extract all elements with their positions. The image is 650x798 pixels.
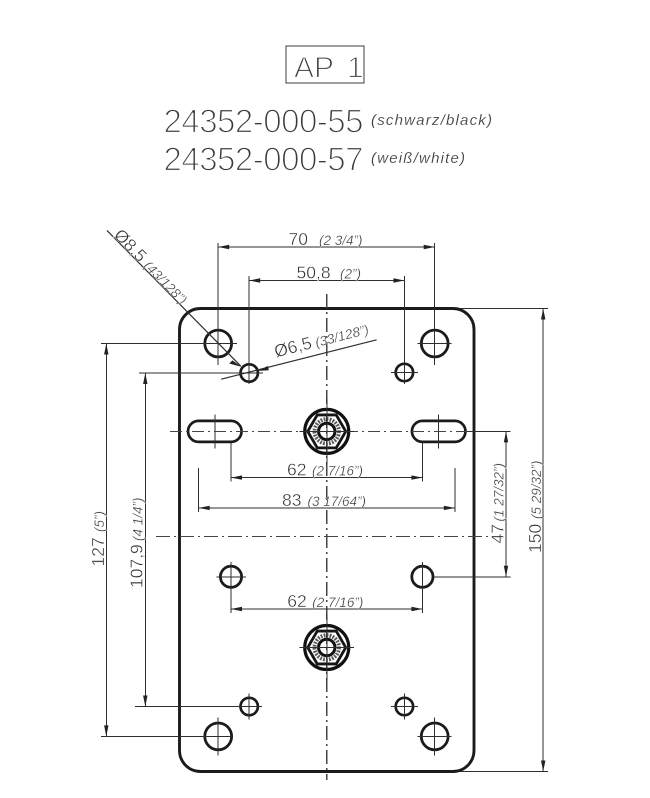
slot row centerline bbox=[170, 430, 483, 432]
svg-text:107,9: 107,9 bbox=[127, 544, 147, 588]
dimension 127 left bbox=[88, 344, 237, 737]
svg-text:(schwarz/black): (schwarz/black) bbox=[371, 112, 493, 129]
hole mid-left bbox=[217, 566, 246, 587]
slot left bbox=[188, 415, 242, 449]
plate outline bbox=[180, 309, 475, 772]
dimension 62 lower bbox=[231, 562, 422, 613]
dimension 62 upper bbox=[231, 443, 422, 482]
svg-text:(2”): (2”) bbox=[340, 267, 361, 282]
svg-text:(5 29/32”): (5 29/32”) bbox=[529, 460, 544, 519]
hole BR Ø8.5 bbox=[418, 717, 452, 755]
dimension 150 right bbox=[460, 309, 548, 772]
svg-text:83: 83 bbox=[282, 490, 301, 510]
svg-text:(2 7/16”): (2 7/16”) bbox=[312, 464, 363, 479]
hole BL Ø8.5 bbox=[205, 717, 232, 755]
hole BR Ø6.5 bbox=[391, 694, 418, 720]
svg-text:(5”): (5”) bbox=[92, 511, 107, 532]
svg-text:(weiß/white): (weiß/white) bbox=[371, 150, 466, 167]
horizontal centerline bbox=[156, 536, 491, 538]
hole BL Ø6.5 bbox=[241, 694, 258, 720]
part number 24352-000-57 bbox=[164, 141, 467, 178]
svg-text:127: 127 bbox=[88, 537, 108, 566]
svg-text:24352-000-57: 24352-000-57 bbox=[164, 141, 364, 178]
dimension 47 right bbox=[433, 431, 511, 576]
svg-text:62: 62 bbox=[287, 591, 306, 611]
dimension 83 bbox=[199, 468, 455, 512]
svg-text:(3 17/64”): (3 17/64”) bbox=[308, 494, 367, 509]
svg-text:(2 7/16”): (2 7/16”) bbox=[312, 595, 363, 610]
svg-text:(2 3/4”): (2 3/4”) bbox=[319, 233, 363, 248]
svg-text:(4 1/4”): (4 1/4”) bbox=[131, 497, 146, 541]
hole TR Ø6.5 bbox=[391, 364, 418, 381]
hole TL Ø6.5 bbox=[241, 364, 258, 381]
nut boss 1 bbox=[300, 399, 354, 464]
dimension 70 bbox=[218, 229, 435, 365]
svg-text:24352-000-55: 24352-000-55 bbox=[164, 103, 364, 140]
dimension 107,9 left bbox=[127, 373, 264, 707]
title box AP 1 bbox=[286, 46, 364, 85]
svg-text:150: 150 bbox=[525, 524, 545, 553]
vertical centerline bbox=[326, 294, 328, 780]
svg-text:62: 62 bbox=[287, 460, 306, 480]
svg-text:(1 27/32”): (1 27/32”) bbox=[492, 463, 507, 522]
hole mid-right bbox=[412, 566, 433, 587]
svg-text:AP: AP bbox=[294, 52, 334, 85]
nut boss 2 bbox=[300, 615, 354, 680]
svg-text:50,8: 50,8 bbox=[297, 263, 331, 283]
svg-text:1: 1 bbox=[347, 52, 364, 85]
slot right bbox=[412, 415, 466, 449]
svg-text:70: 70 bbox=[289, 229, 309, 249]
dimension 50,8 bbox=[249, 263, 404, 385]
hole TR Ø8.5 bbox=[418, 330, 452, 357]
svg-text:47: 47 bbox=[488, 524, 508, 543]
hole TL Ø8.5 bbox=[205, 330, 232, 357]
part number 24352-000-55 bbox=[164, 103, 494, 140]
leader Ø8,5 bbox=[107, 225, 242, 367]
leader Ø6,5 bbox=[221, 322, 376, 379]
